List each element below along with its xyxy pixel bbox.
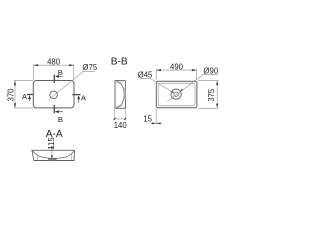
bowl curve B-B [116, 81, 123, 107]
outer drain circle O90 [171, 89, 181, 99]
section marker B bottom [54, 105, 63, 124]
section marker A left [22, 92, 33, 101]
hatch B-B [124, 89, 126, 99]
svg-text:15: 15 [143, 115, 152, 124]
section outline A-A [32, 150, 75, 160]
dimension 490 [156, 69, 196, 80]
svg-text:490: 490 [170, 63, 184, 72]
dimension 15 [155, 109, 157, 124]
dimension 370 [14, 80, 33, 108]
leader O45 [140, 78, 174, 92]
dimension 375 [198, 80, 218, 108]
bowl curve A-A [32, 151, 73, 159]
drain (section) [49, 159, 57, 161]
basin outline (plan) [33, 81, 74, 108]
section outline B-B [115, 81, 125, 109]
dimension 140 [114, 109, 127, 120]
leader O90 [167, 74, 217, 101]
svg-text:115: 115 [47, 137, 56, 150]
svg-text:375: 375 [207, 88, 216, 102]
svg-text:Ø45: Ø45 [138, 71, 153, 80]
drain hole O75 [50, 91, 58, 99]
svg-text:370: 370 [7, 88, 16, 102]
wall line left [37, 156, 39, 161]
svg-text:480: 480 [47, 58, 61, 67]
svg-text:B: B [58, 68, 63, 77]
svg-text:140: 140 [114, 121, 128, 130]
svg-text:Ø75: Ø75 [82, 63, 97, 72]
svg-text:Ø90: Ø90 [203, 67, 218, 76]
wall line right [71, 154, 73, 161]
leader O75 [49, 71, 95, 100]
outer outline (bottom view) [156, 81, 197, 107]
inner rim [158, 83, 195, 106]
svg-text:B: B [58, 115, 63, 124]
inner drain circle O45 [174, 92, 178, 96]
svg-text:B-B: B-B [111, 57, 128, 68]
svg-text:A: A [81, 94, 87, 103]
dimension 115 [51, 146, 53, 159]
section marker A right [72, 94, 87, 103]
section marker B top [54, 68, 63, 83]
svg-text:A: A [22, 92, 28, 101]
dimension 480 [33, 64, 73, 80]
